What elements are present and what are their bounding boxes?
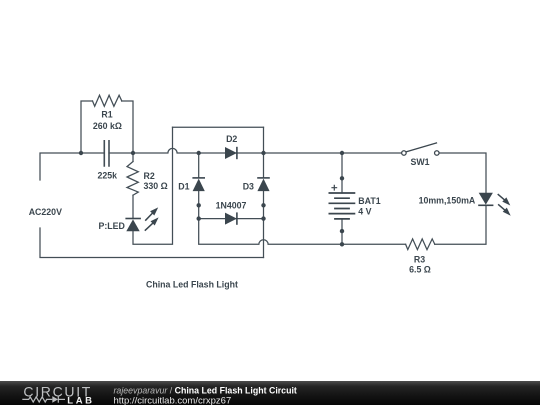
svg-text:6.5 Ω: 6.5 Ω: [409, 264, 431, 274]
switch SW1: [402, 143, 439, 156]
wire: capacitor right plate to switch left terminal (with hop over x=172.5): [109, 148, 402, 153]
wire: switch right terminal to big LED anode: [439, 153, 486, 193]
wire: R2 bottom lead to P:LED: [132, 195, 134, 218]
wire: box left vertical down and to P:LED cathode branch: [133, 127, 173, 244]
wire: battery bottom lead: [341, 219, 343, 244]
resistor R2: [127, 162, 138, 196]
footer bar: [0, 381, 540, 405]
wire: D3 cathode up to box top right corner: [263, 127, 265, 178]
wire: 1N4007 horizontal wire: [199, 218, 264, 220]
svg-text:330 Ω: 330 Ω: [144, 181, 168, 191]
wire: D1 cathode up to main wire: [198, 153, 200, 178]
diode D4 1N4007: [225, 212, 237, 224]
wire: R3 left lead to bridge bottom-left corner (with hop over x=263.5): [199, 191, 406, 244]
wire: battery top lead: [341, 153, 343, 193]
wire: AC bottom stub to bridge right vertical: [40, 228, 264, 258]
svg-text:225k: 225k: [98, 170, 118, 180]
svg-text:D3: D3: [243, 181, 254, 191]
capacitor C1 plates: [104, 141, 109, 166]
junction: D1 anode terminal: [197, 203, 201, 207]
LED D6 10mm,150mA: [478, 193, 511, 216]
resistor R3: [406, 239, 435, 250]
junction: BAT1 negative terminal: [340, 229, 344, 233]
battery BAT1: [329, 185, 356, 219]
wire: bridge right vertical from AC wire up to D3 anode: [263, 191, 265, 257]
svg-text:LAB: LAB: [67, 395, 94, 405]
svg-text:http://circuitlab.com/crxpz67: http://circuitlab.com/crxpz67: [114, 395, 232, 405]
wire: R2 top lead from main wire: [132, 153, 134, 162]
junction: 1N4007 wire at right vertical (node BR): [261, 216, 265, 220]
wire: AC top stub to capacitor left plate: [40, 153, 104, 180]
wire: R1 loop left leg and lead: [81, 101, 93, 153]
junction: D3 anode terminal: [261, 203, 265, 207]
svg-text:10mm,150mA: 10mm,150mA: [419, 195, 476, 205]
resistor R1: [93, 95, 122, 106]
svg-text:AC220V: AC220V: [29, 207, 62, 217]
junction: battery branch on main wire: [340, 151, 344, 155]
junction: 1N4007 wire at left vertical (node BL): [197, 216, 201, 220]
svg-text:D2: D2: [226, 134, 237, 144]
diode D2: [225, 147, 237, 159]
junction: R1 right leg / R2 branch on main wire: [131, 151, 135, 155]
svg-text:R1: R1: [101, 109, 112, 119]
svg-text:1N4007: 1N4007: [216, 200, 247, 210]
junction: battery branch on bottom wire: [340, 242, 344, 246]
logo resistor-diode row: [22, 396, 65, 403]
diode D3: [257, 178, 270, 191]
wire: R1 right lead and right leg: [122, 101, 133, 153]
svg-text:China Led Flash Light: China Led Flash Light: [146, 280, 238, 290]
LED P:LED: [125, 207, 158, 231]
junction: R1 left leg on main wire: [79, 151, 83, 155]
junction: BAT1 positive terminal: [340, 176, 344, 180]
svg-text:SW1: SW1: [410, 157, 429, 167]
svg-text:R3: R3: [414, 255, 425, 265]
junction: D1 branch on main wire (node TL): [197, 151, 201, 155]
svg-text:BAT1: BAT1: [358, 196, 380, 206]
svg-text:260 kΩ: 260 kΩ: [93, 121, 122, 131]
svg-text:R2: R2: [144, 171, 155, 181]
svg-text:4 V: 4 V: [358, 206, 371, 216]
diode D1: [192, 178, 205, 191]
wire: box top wire: [173, 126, 264, 128]
svg-text:P:LED: P:LED: [99, 221, 125, 231]
junction: D3 branch on main wire (node TR): [261, 151, 265, 155]
wire: big LED cathode down and left to R3: [435, 205, 486, 244]
svg-text:rajeevparavur / China Led Flas: rajeevparavur / China Led Flash Light Ci…: [114, 385, 297, 395]
svg-text:D1: D1: [178, 181, 189, 191]
